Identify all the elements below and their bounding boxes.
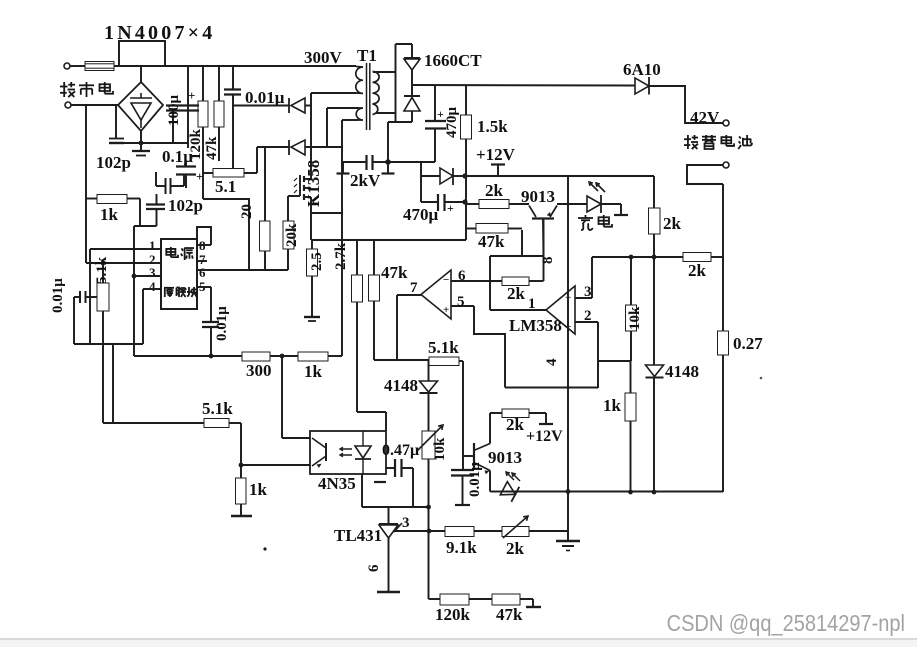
T1 primary winding bbox=[356, 67, 363, 94]
svg-text:5.1k: 5.1k bbox=[94, 256, 110, 284]
svg-text:42V: 42V bbox=[690, 108, 720, 127]
svg-text:470μ: 470μ bbox=[403, 205, 439, 224]
svg-text:0.01μ: 0.01μ bbox=[245, 88, 285, 107]
wire row y507 bbox=[362, 506, 429, 508]
svg-text:47k: 47k bbox=[381, 263, 408, 282]
diode D6 bbox=[257, 146, 289, 148]
svg-text:+12V: +12V bbox=[526, 428, 563, 445]
svg-text:−: − bbox=[443, 274, 449, 286]
wire pin3 bbox=[575, 297, 592, 299]
wire mains N branch down bbox=[85, 105, 87, 263]
wire row y360 bbox=[374, 359, 429, 361]
wire pin5 bbox=[451, 305, 474, 307]
wire feedback loop bbox=[490, 255, 544, 257]
wire DC minus row bbox=[116, 142, 188, 144]
capacitor 0.1u bbox=[185, 162, 187, 167]
capacitor 100u electrolytic bbox=[166, 104, 199, 106]
svg-text:0.27: 0.27 bbox=[733, 334, 763, 353]
svg-text:6A10: 6A10 bbox=[623, 60, 661, 79]
svg-text:120k: 120k bbox=[435, 605, 471, 624]
wire secondary rail bbox=[412, 84, 635, 87]
svg-text:7: 7 bbox=[410, 280, 418, 296]
wire emitter down bbox=[489, 471, 491, 492]
wire LED return bbox=[602, 203, 621, 205]
svg-text:470μ: 470μ bbox=[444, 107, 460, 139]
wire row y387 bbox=[505, 387, 598, 389]
wire left drop bbox=[420, 162, 422, 202]
diode 6A10 bbox=[635, 78, 649, 94]
svg-text:9.1k: 9.1k bbox=[446, 538, 477, 557]
optocoupler 4N35 box bbox=[310, 431, 386, 474]
diode 4148 (left) bbox=[428, 366, 430, 382]
wire pin5 path bbox=[474, 306, 505, 388]
svg-text:+: + bbox=[447, 201, 454, 215]
speck bbox=[263, 547, 266, 550]
wire bottom sense row bbox=[503, 491, 723, 493]
resistor 1k (left) bbox=[97, 195, 127, 204]
4N35 LED bbox=[355, 446, 371, 458]
svg-text:6: 6 bbox=[199, 265, 206, 280]
svg-text:0.01μ: 0.01μ bbox=[50, 278, 66, 313]
svg-text:1N4007×4: 1N4007×4 bbox=[104, 22, 215, 44]
label jie-shi-dian (connect mains) bbox=[60, 82, 75, 97]
svg-text:6: 6 bbox=[458, 268, 466, 284]
transistor 9013 (2) bbox=[463, 455, 474, 457]
wire bridge bottom to ground bbox=[140, 131, 142, 143]
resistor 20k bbox=[287, 196, 289, 221]
wire pin6 bbox=[451, 280, 502, 282]
svg-text:+12V: +12V bbox=[476, 145, 516, 164]
wire mid drop bbox=[465, 176, 467, 240]
resistor 1k (row) bbox=[298, 352, 328, 361]
capacitor series pair bbox=[165, 178, 167, 194]
4N35 light arrows bbox=[340, 447, 352, 451]
svg-text:1: 1 bbox=[528, 296, 536, 312]
label jie-xu-dian-chi (connect battery) bbox=[684, 135, 698, 149]
op-amp U1B output wire pin7 bbox=[396, 295, 398, 360]
ground TL431 bbox=[377, 591, 400, 594]
svg-text:+: + bbox=[443, 304, 449, 316]
svg-text:2k: 2k bbox=[485, 181, 504, 200]
LED charging bbox=[587, 196, 601, 212]
svg-text:1k: 1k bbox=[304, 362, 323, 381]
resistor 0.27 shunt bbox=[722, 184, 724, 331]
svg-text:5.1: 5.1 bbox=[215, 177, 236, 196]
label dian-yuan (power) bbox=[166, 247, 178, 257]
wire to LED bbox=[557, 203, 587, 205]
terminal battery plus bbox=[723, 120, 729, 126]
wire pin8 loop bbox=[197, 227, 211, 245]
T1 secondary winding bbox=[373, 72, 380, 115]
wire pin1 row bbox=[90, 248, 146, 250]
svg-text:2: 2 bbox=[584, 308, 592, 324]
wire rail drop to 0.1u column bbox=[187, 67, 189, 148]
bridge rectifier D1-D4 bbox=[118, 82, 163, 131]
wire diode feed row bbox=[233, 105, 289, 107]
svg-text:+: + bbox=[188, 88, 195, 103]
svg-text:+: + bbox=[196, 169, 203, 184]
svg-text:4: 4 bbox=[149, 279, 156, 294]
svg-text:4N35: 4N35 bbox=[318, 474, 356, 493]
wire secondary top bbox=[373, 71, 396, 73]
wire left jog bbox=[74, 343, 143, 345]
potentiometer 10k bbox=[428, 394, 430, 431]
svg-text:4148: 4148 bbox=[665, 362, 699, 381]
wire 5.1 to diode D6 row bbox=[256, 147, 258, 173]
svg-text:2k: 2k bbox=[688, 261, 707, 280]
wire down to 4N35 upper input bbox=[281, 356, 283, 438]
svg-text:47k: 47k bbox=[478, 232, 505, 251]
wire pin2 bbox=[575, 321, 598, 323]
svg-text:9013: 9013 bbox=[521, 187, 555, 206]
capacitor 0.01u (9013-2) bbox=[451, 469, 474, 471]
capacitor 102p (1) bbox=[109, 138, 124, 140]
svg-text:0.01μ: 0.01μ bbox=[467, 462, 483, 497]
svg-text:10k: 10k bbox=[432, 437, 448, 461]
resistor 2k (coll) bbox=[490, 412, 502, 414]
diode D7 bbox=[421, 175, 440, 177]
wire 0.47u to divider bbox=[412, 468, 414, 507]
resistor 1k (hyst) bbox=[625, 393, 636, 421]
wire mains rail top bbox=[70, 65, 85, 67]
capacitor 470u (lower) bbox=[421, 201, 438, 203]
svg-text:T1: T1 bbox=[357, 46, 377, 65]
wire 9.1k row junction bbox=[427, 529, 432, 534]
diode D5 bbox=[288, 98, 290, 113]
svg-text:5.1k: 5.1k bbox=[202, 399, 233, 418]
svg-text:20: 20 bbox=[239, 204, 255, 219]
wire 120k bottom jog to IC pin6 row bbox=[203, 199, 249, 270]
resistor 2k (LED limit) bbox=[653, 176, 655, 208]
svg-text:5.1k: 5.1k bbox=[428, 338, 459, 357]
T1 core bbox=[366, 63, 368, 130]
capacitor 0.01u (snubber top) bbox=[232, 67, 234, 90]
svg-text:1k: 1k bbox=[603, 396, 622, 415]
svg-text:1: 1 bbox=[149, 238, 156, 253]
wire feedback row y356 bbox=[134, 355, 242, 357]
wire to 4N35 lower input bbox=[241, 464, 310, 466]
svg-text:2k: 2k bbox=[507, 284, 526, 303]
resistor 47k (divider) bbox=[492, 594, 520, 605]
svg-text:3: 3 bbox=[149, 265, 156, 280]
svg-text:8: 8 bbox=[540, 257, 556, 265]
wire pin3 down bbox=[132, 274, 137, 279]
4N35 phototransistor bbox=[325, 443, 327, 461]
svg-text:300V: 300V bbox=[304, 48, 343, 67]
svg-text:0.47μ: 0.47μ bbox=[382, 442, 419, 459]
wire fuse to bridge top / 300V rail bbox=[114, 65, 356, 67]
ground 1k bbox=[240, 504, 242, 516]
svg-text:TL431: TL431 bbox=[334, 526, 382, 545]
svg-text:0.01μ: 0.01μ bbox=[214, 306, 230, 341]
wire op-amp out row y257 bbox=[592, 256, 683, 258]
op-amp U1B LM358 bbox=[421, 270, 451, 319]
svg-text:1k: 1k bbox=[249, 480, 268, 499]
svg-text:2.5: 2.5 bbox=[309, 252, 325, 271]
wire +12V long vertical bbox=[567, 176, 569, 541]
T1 aux winding bbox=[356, 108, 363, 120]
svg-text:4148: 4148 bbox=[384, 376, 418, 395]
wire 9013-2 base feed bbox=[462, 361, 464, 470]
resistor 2k (divider top) bbox=[683, 253, 711, 262]
svg-text:300: 300 bbox=[246, 361, 272, 380]
terminal mains L bbox=[64, 63, 70, 69]
resistor 120k bbox=[440, 594, 469, 605]
wire 42V feed bbox=[649, 86, 723, 123]
wire 5.1k left lead down bbox=[428, 360, 430, 366]
wire source sense row y240 bbox=[310, 213, 312, 240]
resistor 1.5k bbox=[465, 86, 467, 116]
MOSFET K1358 bbox=[288, 195, 300, 197]
resistor 20 bbox=[264, 147, 266, 221]
wire pin2 row bbox=[86, 262, 146, 264]
resistor 2.5 bbox=[311, 240, 313, 249]
power module IC box bbox=[161, 239, 197, 309]
svg-text:47k: 47k bbox=[204, 136, 220, 160]
wire collector to 2k bbox=[489, 413, 491, 444]
resistor 2.7k bbox=[356, 240, 358, 275]
svg-text:4: 4 bbox=[544, 358, 560, 366]
wire down to 1k bbox=[240, 423, 242, 478]
resistor 47k (sense) bbox=[373, 240, 375, 275]
capacitor 0.01u (left) bbox=[79, 291, 81, 303]
potentiometer 2k bbox=[502, 527, 529, 537]
svg-text:LM358: LM358 bbox=[509, 316, 562, 335]
wire mains N to bridge left bbox=[71, 104, 118, 106]
svg-text:1k: 1k bbox=[100, 205, 119, 224]
diode 1660CT lower bbox=[404, 95, 420, 97]
svg-text:3: 3 bbox=[584, 284, 592, 300]
svg-text:1660CT: 1660CT bbox=[424, 51, 482, 70]
svg-text:102p: 102p bbox=[168, 196, 203, 215]
wire transformer aux to row bbox=[341, 120, 343, 356]
wire jog to 4N35 LED bbox=[357, 411, 386, 413]
resistor 1k (bias) bbox=[236, 478, 247, 504]
wire secondary bottom bbox=[376, 112, 396, 114]
svg-text:0.1μ: 0.1μ bbox=[162, 147, 193, 166]
capacitor 0.47u bbox=[386, 467, 395, 469]
terminal battery minus bbox=[723, 162, 729, 168]
svg-text:102p: 102p bbox=[96, 153, 131, 172]
svg-text:1.5k: 1.5k bbox=[477, 117, 508, 136]
wire 5.1k row bbox=[103, 422, 204, 424]
wire pin6 row bbox=[209, 269, 288, 271]
resistor 47k (comp) bbox=[466, 228, 476, 230]
label chong-dian (charging) bbox=[578, 215, 593, 230]
svg-text:2kV: 2kV bbox=[350, 171, 381, 190]
capacitor 0.01u on pin5 leg bbox=[210, 287, 212, 322]
capacitor 2kV bbox=[343, 161, 367, 163]
wire mid-left vertical bbox=[112, 344, 114, 423]
wire source down bbox=[310, 197, 312, 213]
+12V symbol bbox=[497, 165, 499, 176]
resistor 2k (base) bbox=[466, 203, 479, 205]
resistor 9.1k bbox=[445, 527, 474, 537]
wire divider bottom bbox=[429, 598, 441, 600]
label 1N4007x4 bracket bbox=[119, 41, 165, 66]
diode 1660CT upper bbox=[411, 44, 413, 58]
wire TL431 ref bbox=[393, 530, 445, 532]
label hou-mo-kuai (thick film module) bbox=[164, 288, 174, 297]
svg-text:2.7k: 2.7k bbox=[333, 242, 349, 270]
terminal mains N bbox=[65, 102, 71, 108]
wire 9013 base stem bbox=[543, 219, 545, 281]
wire 47k to node bbox=[521, 230, 523, 256]
wire pin2 to 10k/1k junction bbox=[598, 360, 630, 362]
svg-text:9013: 9013 bbox=[488, 448, 522, 467]
wire pin4 down bbox=[142, 289, 144, 344]
ground under bridge bbox=[140, 143, 142, 151]
svg-text:6: 6 bbox=[366, 564, 382, 572]
svg-text:+: + bbox=[437, 107, 444, 121]
wire TL431 anode to ground bbox=[388, 538, 390, 592]
svg-text:5: 5 bbox=[457, 294, 465, 310]
ground divider bbox=[532, 599, 534, 607]
svg-text:47k: 47k bbox=[496, 605, 523, 624]
ground main bbox=[556, 540, 580, 542]
diode 4148 (right) bbox=[646, 365, 664, 377]
resistor 5.1k (to 4N35) bbox=[204, 419, 229, 428]
wire drain to transformer bbox=[310, 93, 312, 179]
svg-text:2k: 2k bbox=[506, 415, 525, 434]
svg-text:10k: 10k bbox=[627, 306, 643, 330]
wire 2kV node right bbox=[388, 161, 435, 163]
svg-text:100μ: 100μ bbox=[166, 95, 182, 127]
resistor 300 bbox=[242, 352, 270, 361]
wire 2kV node up to secondary bbox=[387, 122, 389, 162]
svg-text:K1358: K1358 bbox=[304, 160, 323, 207]
svg-text:2k: 2k bbox=[663, 214, 682, 233]
resistor 2k (feedback) bbox=[502, 277, 529, 286]
resistor 10k bbox=[629, 255, 634, 260]
resistor 5.1 bbox=[203, 172, 213, 174]
capacitor 470u (top) bbox=[434, 86, 436, 122]
ground 2.5 bbox=[304, 316, 320, 318]
+12V rail bbox=[465, 175, 654, 177]
resistor 47k (input) bbox=[218, 67, 220, 101]
op-amp U1A LM358 bbox=[546, 286, 575, 334]
shunt reg TL431 bbox=[388, 507, 390, 524]
svg-text:20k: 20k bbox=[284, 223, 300, 247]
wire bridge top bbox=[140, 66, 142, 82]
resistor 120k bbox=[202, 67, 204, 101]
fuse FU bbox=[85, 62, 114, 71]
svg-text:2k: 2k bbox=[506, 539, 525, 558]
resistor 5.1k (vertical left) bbox=[101, 261, 106, 266]
svg-text:3: 3 bbox=[402, 515, 410, 531]
capacitor 102p (2) bbox=[156, 194, 158, 205]
LED (opto drive) bbox=[490, 491, 503, 493]
+12V symbol (2) bbox=[545, 413, 547, 424]
